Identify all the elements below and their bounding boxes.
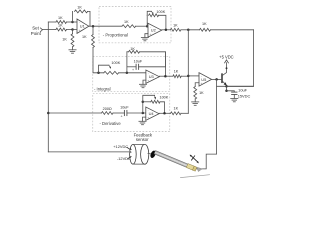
actuator rod (154, 151, 191, 169)
wire U3 output (159, 75, 173, 77)
wire R2 to U1 inv (67, 21, 73, 23)
svg-text:1K: 1K (174, 69, 179, 73)
R6 wiper wire (147, 11, 151, 15)
wire U2 trimpot riser left (146, 15, 148, 26)
Proportional stage dashed box (99, 6, 171, 43)
svg-text:1K: 1K (173, 24, 178, 28)
svg-text:100K: 100K (111, 61, 120, 65)
wire riser top corner to R2 (48, 21, 56, 23)
node emitter junction (225, 85, 228, 88)
node U2 inverting input (146, 25, 149, 28)
wire summing node to U5 (188, 75, 199, 77)
svg-text:+: + (132, 68, 134, 72)
+12VDC leader (127, 147, 130, 149)
svg-text:+: + (78, 28, 80, 32)
Q1 collector (222, 63, 227, 76)
+5 VDC supply arrow (225, 60, 229, 63)
transistor Q1 base bar (221, 74, 223, 82)
svg-text:Set: Set (32, 26, 39, 31)
R14 wiper wire (143, 95, 155, 102)
svg-text:1K: 1K (77, 6, 82, 10)
node U3 inverting input (126, 72, 128, 75)
wire U2 output (162, 29, 171, 31)
svg-text:- Derivative: - Derivative (100, 121, 122, 126)
op-amp U1 (77, 19, 89, 33)
resistor R11 1K (integral feedback) (129, 50, 140, 53)
resistor R4 1K (noninv to ground) (71, 34, 74, 47)
R10 wiper wire (99, 65, 109, 73)
svg-text:U2: U2 (151, 28, 156, 33)
svg-text:sensor: sensor (136, 137, 149, 142)
svg-text:1K: 1K (199, 91, 204, 95)
resistor R5 1K (U1 out to U2) (122, 25, 136, 28)
node U5 output (215, 78, 218, 81)
wire U3 noninv to ground (143, 80, 146, 84)
svg-text:U5: U5 (201, 77, 206, 82)
svg-text:100K: 100K (159, 95, 168, 99)
wire R16 to ground (194, 99, 196, 102)
ground U5 noninv (192, 101, 199, 103)
wire summing riser vertical (187, 30, 189, 114)
svg-text:1K: 1K (62, 38, 67, 42)
resistor R8 1K (U5 feedback) (200, 28, 211, 31)
svg-text:U1: U1 (80, 23, 85, 28)
svg-text:+12VDC: +12VDC (113, 144, 128, 149)
+12VDC arrow (129, 148, 131, 150)
svg-text:-12VDC: -12VDC (117, 156, 131, 161)
wire U1 noninv input (73, 29, 78, 31)
wire U4 noninv to ground (143, 117, 146, 121)
wire U1 output (89, 25, 122, 27)
wire R7 to summing riser (181, 29, 188, 31)
sensor knob (149, 150, 156, 159)
wire emitter to feedback riser (227, 85, 254, 87)
capacitor C2 10uF plates (123, 110, 125, 115)
op-amp U4 (146, 107, 159, 120)
resistor R2 1K (feedback input) (56, 21, 67, 24)
svg-text:1K: 1K (58, 24, 63, 28)
Q1 emitter arrow (224, 82, 227, 85)
svg-text:- Integral: - Integral (94, 87, 111, 92)
wire to output capacitor (227, 91, 235, 92)
svg-text:200Ω: 200Ω (103, 107, 112, 111)
wire R15 to summing riser (181, 112, 188, 114)
wire R1 to U1 noninv (67, 29, 73, 31)
wire C3 to ground (233, 95, 235, 99)
svg-text:U3: U3 (149, 74, 154, 79)
wire R11 right to riser (140, 52, 166, 67)
node U4 inverting input (142, 112, 145, 115)
-12VDC arrow (129, 156, 131, 158)
surface shadow line (181, 175, 210, 178)
wire U2 noninv to ground (145, 34, 148, 38)
wire integral fb riser right (164, 52, 166, 76)
wire set point to input resistor (43, 29, 57, 31)
op-amp U5 (199, 73, 212, 86)
wire R11 corner left (127, 51, 129, 53)
sensor pot front ellipse (141, 144, 149, 164)
wire U4 output (159, 112, 171, 114)
R14 wiper arrow (154, 95, 156, 97)
trimpot R6 100K (U2 feedback) (149, 14, 159, 17)
wire actuator step (195, 154, 217, 169)
motion arrow gray (197, 167, 202, 171)
wire R12 to summing node (181, 75, 188, 77)
svg-text:10uF: 10uF (238, 88, 247, 93)
set point arrow (40, 28, 42, 32)
wire derivative fb riser left (142, 102, 144, 113)
resistor R16 1K (U5 noninv to ground) (194, 87, 197, 99)
Q1 emitter (222, 81, 227, 91)
R6 wiper arrow (151, 11, 152, 13)
resistor R1 1K (set point input) (56, 28, 67, 31)
svg-text:1K: 1K (58, 16, 63, 20)
svg-text:10uF: 10uF (120, 106, 129, 110)
pen arrow mark (191, 155, 198, 161)
wire right feedback riser (217, 30, 254, 87)
ground U4 noninv (139, 120, 146, 122)
ground U1 noninv (69, 49, 76, 51)
-12VDC leader (128, 157, 131, 159)
trimpot R14 100K (derivative feedback) (151, 100, 160, 103)
Integral stage dashed box (93, 57, 170, 92)
svg-text:1K: 1K (124, 20, 129, 24)
resistor R12 1K (I out) (173, 75, 181, 78)
wire riser to wiper (48, 151, 128, 153)
ground U2 noninv (141, 36, 148, 38)
wire R8 wires (188, 29, 253, 31)
svg-text:- Proportional: - Proportional (103, 33, 128, 38)
wire U1 out down riser (92, 26, 94, 34)
wire C2 to U4 (127, 112, 146, 114)
svg-text:1K: 1K (82, 35, 87, 39)
R10 wiper arrow (109, 65, 110, 67)
wire integral fb riser left (126, 52, 128, 73)
wire R9 to integral row (93, 48, 104, 73)
node U2 output (165, 29, 168, 32)
sensor shaft stub (148, 153, 151, 155)
op-amp U2 (148, 23, 162, 37)
capacitor C1 10uF plates (135, 64, 137, 69)
svg-text:1K: 1K (174, 106, 179, 110)
wire C1 right to riser (139, 66, 166, 68)
svg-text:U4: U4 (149, 111, 155, 116)
wire U1 inv input (73, 21, 78, 23)
resistor R7 1K (P out) (170, 28, 181, 31)
wire U1 feedback right (88, 11, 90, 26)
node collector (226, 67, 228, 69)
wire R10 to U3 inv node (119, 72, 146, 74)
wire R6 right riser (159, 15, 166, 29)
resistor R15 1K (D out) (171, 112, 182, 115)
svg-text:100K: 100K (156, 10, 165, 14)
svg-text:+: + (121, 114, 123, 118)
wire R5 to U2 (136, 25, 148, 27)
wire actuator drop (216, 79, 218, 154)
svg-text:1K: 1K (202, 22, 207, 26)
wire R4 top (72, 30, 74, 34)
Derivative stage dashed box (93, 94, 170, 132)
node U1 non-inverting input (71, 28, 74, 31)
actuator ferrule (186, 164, 194, 171)
svg-text:+5 VDC: +5 VDC (219, 54, 233, 59)
node derivative tap (47, 112, 50, 115)
capacitor C3 plates (232, 91, 237, 93)
wiper arrow into sensor (130, 151, 132, 153)
wire cap C1 branch (127, 66, 136, 68)
node derivative fb left (142, 101, 145, 104)
node U1 output (92, 25, 95, 28)
resistor R3 1K (U1 feedback) (75, 10, 88, 13)
svg-text:15VDC: 15VDC (238, 93, 251, 98)
wire R14 right riser (160, 102, 165, 114)
wire to trimpot R14 (143, 101, 151, 103)
wire U5 output to base (212, 78, 222, 80)
svg-text:10uF: 10uF (134, 59, 143, 63)
node U4 output (163, 112, 166, 115)
wire R4 to ground (72, 47, 74, 50)
resistor R13 200ohm (derivative input) (102, 112, 114, 115)
trimpot R10 100K (integral input) (104, 71, 119, 74)
wire U1 feedback riser left (72, 11, 74, 22)
svg-text:1K: 1K (130, 47, 135, 51)
wire U5 noninv down (195, 83, 199, 87)
node capacitor tap (225, 90, 228, 93)
wire feedback riser (47, 22, 49, 152)
sensor pot body lines (133, 145, 145, 165)
node P summing corner (187, 29, 190, 32)
node U3 output (164, 75, 167, 78)
wire R13 to C2 (113, 112, 124, 114)
node U1 inverting input (71, 21, 74, 24)
sensor pot body back ellipse (130, 145, 137, 165)
resistor R9 1K (into integral) (92, 35, 95, 48)
ground C3 (231, 97, 238, 99)
wire derivative input (48, 112, 101, 114)
op-amp U3 (146, 70, 159, 83)
node summing junction (187, 75, 190, 78)
ground U3 noninv (139, 83, 146, 85)
node integral trimpot left (97, 72, 100, 75)
